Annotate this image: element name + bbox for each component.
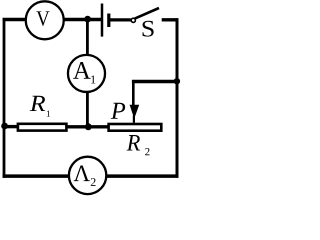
wire switch to top-right corner xyxy=(162,18,179,21)
wire battery to switch xyxy=(110,18,131,21)
wire R1 to R2 xyxy=(67,125,109,128)
switch S pivot xyxy=(131,18,135,22)
resistor R1 box xyxy=(18,124,67,131)
wire A1 stem upper xyxy=(86,20,89,56)
switch S label xyxy=(143,21,154,37)
wire middle-left segment xyxy=(3,125,18,128)
ammeter A1 xyxy=(68,55,105,92)
voltmeter V xyxy=(26,1,64,39)
wire wiper to right rail xyxy=(132,80,179,83)
wiper arrowhead xyxy=(130,105,140,119)
node junction right rail xyxy=(174,78,180,84)
wire right rail xyxy=(176,18,179,177)
battery short plate xyxy=(107,14,110,28)
node junction top (A1 tap) xyxy=(84,16,91,23)
node junction middle-left xyxy=(1,123,8,130)
wiper arrow tip stub xyxy=(133,116,135,123)
wire left rail xyxy=(3,18,6,178)
wiper P label xyxy=(111,103,125,119)
rheostat R2 label xyxy=(127,135,150,155)
switch S blade xyxy=(135,8,159,19)
wire V to battery xyxy=(65,18,102,21)
ammeter A2 xyxy=(69,157,106,194)
resistor R1 label xyxy=(30,96,50,117)
wire top-left segment xyxy=(3,18,26,21)
wire bottom-left segment xyxy=(3,174,69,178)
node junction middle (A1 bottom) xyxy=(85,123,92,130)
battery long plate xyxy=(101,4,104,37)
wire bottom-right segment xyxy=(107,174,179,178)
wiper arrow stem xyxy=(132,80,135,106)
rheostat R2 box xyxy=(109,124,162,131)
wire A1 stem lower xyxy=(86,92,89,127)
